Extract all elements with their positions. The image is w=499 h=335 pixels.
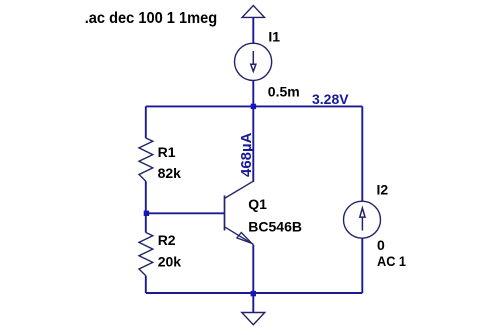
svg-text:.ac dec 100 1 1meg: .ac dec 100 1 1meg (85, 10, 218, 27)
wire R1 to base node (145, 181, 147, 213)
wire top gnd to I1 (252, 17, 254, 44)
wire bottom rail (146, 292, 362, 294)
current source I2 arrow (360, 208, 365, 231)
svg-text:BC546B: BC546B (248, 219, 302, 235)
wire Q1 emitter to bottom rail (252, 245, 254, 294)
resistor R2 (139, 233, 153, 276)
wire R2 to bottom rail (145, 276, 147, 293)
svg-text:R1: R1 (158, 144, 176, 160)
wire bottom node to ground (252, 293, 254, 313)
junction bottom node (251, 291, 256, 296)
svg-text:0: 0 (377, 237, 385, 253)
wire right rail lower (361, 238, 363, 293)
flipped ground symbol (top supply) (242, 6, 264, 18)
wire top rail (146, 105, 362, 107)
svg-text:468µA: 468µA (238, 132, 255, 177)
svg-text:AC 1: AC 1 (377, 253, 406, 269)
ground (242, 313, 265, 325)
svg-text:82k: 82k (158, 165, 182, 181)
wire base node to R2 (145, 213, 147, 232)
svg-text:I2: I2 (377, 182, 389, 198)
wire base node to Q1 base (146, 212, 225, 214)
transistor Q1 (225, 181, 254, 244)
svg-text:Q1: Q1 (248, 196, 267, 212)
junction top node (251, 104, 256, 109)
junction base node (144, 211, 149, 216)
svg-text:I1: I1 (268, 29, 280, 45)
resistor R1 (139, 138, 153, 181)
current source I1 circle (235, 43, 272, 80)
svg-text:0.5m: 0.5m (268, 83, 300, 99)
current source I1 arrow (251, 51, 256, 71)
svg-text:R2: R2 (158, 232, 176, 248)
wire Q1 collector (252, 106, 254, 182)
wire left rail upper (145, 106, 147, 138)
current source I2 circle (344, 201, 381, 238)
wire right rail upper (361, 106, 363, 201)
svg-text:20k: 20k (158, 253, 182, 269)
svg-text:3.28V: 3.28V (312, 91, 349, 107)
wire I1 to top node (252, 80, 254, 106)
